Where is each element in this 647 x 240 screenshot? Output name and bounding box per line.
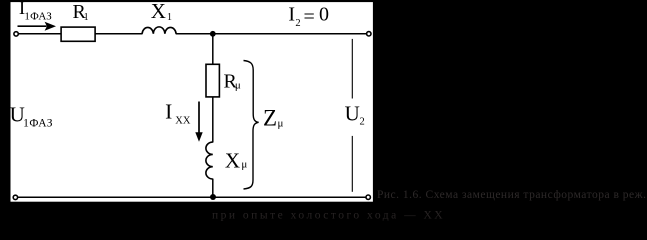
node junction top	[210, 31, 216, 37]
svg-text:μ: μ	[235, 80, 241, 92]
svg-text:X: X	[225, 149, 240, 173]
svg-text:0: 0	[319, 4, 329, 26]
terminal top-right	[367, 32, 371, 36]
wire bottom	[18, 196, 366, 198]
svg-text:1ФАЗ: 1ФАЗ	[24, 11, 52, 23]
svg-text:2: 2	[295, 18, 300, 29]
svg-text:=: =	[304, 6, 315, 28]
wire top right	[176, 33, 367, 35]
arrow current I1	[18, 22, 57, 31]
inductor Xmu	[206, 142, 213, 179]
arrow current Ixx	[195, 102, 202, 142]
terminal bottom-left	[13, 195, 17, 199]
svg-text:Z: Z	[263, 105, 277, 130]
svg-text:1: 1	[84, 12, 89, 23]
svg-text:1: 1	[167, 12, 172, 23]
svg-text:μ: μ	[241, 159, 247, 171]
svg-text:1ФАЗ: 1ФАЗ	[23, 118, 53, 130]
svg-text:при опыте холостого хода — XX: при опыте холостого хода — XX	[212, 210, 445, 222]
node junction bottom	[210, 194, 216, 200]
resistor Rmu	[206, 64, 219, 97]
svg-text:U: U	[345, 102, 360, 126]
svg-text:I: I	[288, 4, 295, 26]
resistor R1	[61, 27, 95, 41]
terminal top-left	[14, 32, 18, 36]
svg-text:X: X	[151, 0, 166, 23]
terminal bottom-right	[366, 195, 370, 199]
voltage line U2	[351, 39, 353, 192]
svg-text:I: I	[165, 100, 172, 124]
wire top left	[18, 33, 142, 35]
brace Zmu	[244, 61, 259, 190]
svg-text:μ: μ	[278, 117, 284, 129]
wire branch lower	[212, 179, 214, 198]
inductor X1	[142, 27, 176, 34]
svg-text:Рис. 1.6. Схема замещения тран: Рис. 1.6. Схема замещения трансформатора…	[377, 189, 646, 201]
svg-text:2: 2	[360, 117, 365, 128]
svg-text:XX: XX	[175, 115, 191, 126]
wire branch upper	[212, 34, 214, 143]
